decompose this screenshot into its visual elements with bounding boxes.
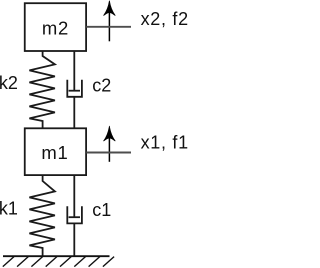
damper c2 rod bottom (73, 97, 75, 128)
svg-text:m1: m1 (41, 142, 68, 163)
svg-text:m2: m2 (42, 17, 69, 38)
ground hatch 3 (31, 257, 42, 267)
arrow x1 shaft (108, 138, 110, 162)
svg-text:k1: k1 (0, 199, 18, 219)
svg-text:x1, f1: x1, f1 (141, 133, 188, 153)
svg-text:x2, f2: x2, f2 (141, 9, 188, 29)
ground hatch 7 (89, 257, 100, 267)
ground hatch 5 (60, 257, 71, 267)
ground hatch 6 (74, 257, 85, 267)
ground hatch 4 (46, 257, 57, 267)
damper c2 cup (67, 80, 82, 97)
svg-text:c1: c1 (92, 200, 111, 220)
ground hatch 8 (103, 257, 114, 267)
arrow x2 shaft (108, 13, 110, 41)
damper c1 cup (67, 206, 82, 223)
svg-text:k2: k2 (0, 73, 18, 93)
ground hatch 1 (3, 257, 14, 267)
damper c2 rod top (73, 51, 75, 91)
damper c1 piston plate (69, 216, 80, 218)
mass m1 box (25, 128, 86, 175)
svg-text:c2: c2 (92, 75, 111, 95)
datum line x1 (gray) (86, 152, 131, 154)
spring k1 (29, 175, 55, 256)
damper c2 piston plate (69, 90, 80, 92)
spring k2 (29, 51, 55, 128)
damper c1 rod top (73, 175, 75, 217)
arrow x2 head (104, 1, 116, 16)
mass m2 box (25, 3, 86, 51)
ground hatch 2 (17, 257, 28, 267)
damper c1 rod bottom (73, 223, 75, 256)
arrow x1 head (104, 126, 116, 141)
datum line x2 (gray) (86, 26, 131, 28)
ground line (3, 255, 110, 257)
